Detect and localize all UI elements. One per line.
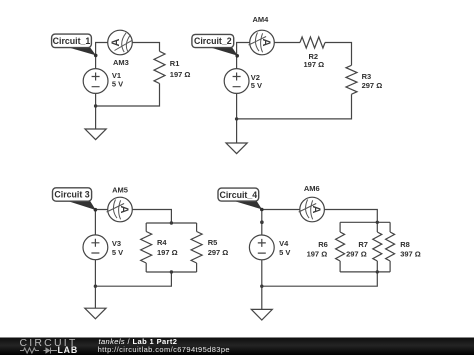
ammeter AM6 xyxy=(300,197,325,222)
node N4a junction top tap xyxy=(376,221,379,224)
svg-text:5 V: 5 V xyxy=(251,81,262,90)
resistor R2 xyxy=(300,37,325,48)
svg-text:5 V: 5 V xyxy=(279,248,290,257)
svg-text:Circuit_4: Circuit_4 xyxy=(219,190,257,200)
svg-text:197 Ω: 197 Ω xyxy=(157,248,178,257)
svg-text:A: A xyxy=(110,38,122,46)
svg-text:V3: V3 xyxy=(112,239,121,248)
ammeter AM3 xyxy=(108,30,133,55)
wire R4 bottom lead xyxy=(145,263,147,272)
wire R6 top lead xyxy=(339,222,341,232)
callout label Circuit_4 xyxy=(218,188,264,211)
node N2 junction xyxy=(235,117,238,120)
resistor R5 xyxy=(191,232,202,264)
wire V1 bottom to ground xyxy=(95,93,97,129)
node N4c junction at V4 bottom xyxy=(260,285,263,288)
wire R1 bottom to bottom rail xyxy=(96,84,160,107)
svg-text:R8: R8 xyxy=(400,240,410,249)
wire V4 bottom to ground xyxy=(261,260,263,310)
svg-text:297 Ω: 297 Ω xyxy=(208,248,229,257)
node N4d junction on V4 top lead xyxy=(260,220,264,224)
wire R2 right to R3 top lead xyxy=(325,43,352,66)
voltage source V2 xyxy=(224,69,249,94)
ground xyxy=(226,143,247,154)
node N3c junction at V3 bottom xyxy=(94,285,97,288)
svg-text:Circuit_2: Circuit_2 xyxy=(194,36,232,46)
voltage source V3 xyxy=(83,235,108,260)
svg-text:http://circuitlab.com/c6794t95: http://circuitlab.com/c6794t95d83pe xyxy=(98,345,230,354)
svg-text:R4: R4 xyxy=(157,238,167,247)
wire AM6 right to parallel top tap xyxy=(324,210,377,223)
resistor R1 xyxy=(154,51,165,83)
svg-text:AM3: AM3 xyxy=(113,58,129,67)
wire bottom tap to rail to V3 xyxy=(95,272,171,286)
node N3b junction bottom tap xyxy=(170,270,173,273)
voltage source V1 xyxy=(83,69,108,94)
voltage source V4 xyxy=(249,235,274,260)
ammeter AM5 xyxy=(108,197,133,222)
wire R8 top lead xyxy=(389,222,391,232)
node N4b junction bottom tap xyxy=(376,270,379,273)
svg-text:197 Ω: 197 Ω xyxy=(304,60,325,69)
svg-text:A: A xyxy=(260,39,272,47)
wire V2 top to corner to ammeter AM4 left xyxy=(237,43,250,69)
wire R4 top lead xyxy=(145,223,147,232)
svg-text:5 V: 5 V xyxy=(112,248,123,257)
wire AM5 right to parallel top tap xyxy=(132,210,171,224)
resistor R8 xyxy=(386,232,395,261)
svg-text:R6: R6 xyxy=(318,240,328,249)
svg-text:5 V: 5 V xyxy=(112,79,123,88)
svg-text:AM6: AM6 xyxy=(304,184,320,193)
ground xyxy=(85,308,106,319)
svg-text:197 Ω: 197 Ω xyxy=(307,250,328,259)
wire R6 bottom lead xyxy=(339,261,341,272)
svg-text:297 Ω: 297 Ω xyxy=(362,81,383,90)
wire top bar R4-R5 xyxy=(146,222,196,224)
svg-text:R5: R5 xyxy=(208,238,218,247)
svg-text:LAB: LAB xyxy=(58,345,78,355)
wire R7 bottom lead xyxy=(376,261,378,272)
node N1 junction xyxy=(94,104,97,107)
svg-text:R3: R3 xyxy=(362,72,372,81)
svg-text:V4: V4 xyxy=(279,239,289,248)
svg-text:297 Ω: 297 Ω xyxy=(346,250,367,259)
node N3a junction top tap xyxy=(170,221,173,224)
wire V3 bottom to ground xyxy=(94,260,96,309)
callout label Circuit_1 xyxy=(52,34,98,57)
wire R7 top lead xyxy=(376,222,378,232)
svg-text:AM5: AM5 xyxy=(112,186,128,195)
resistor R7 xyxy=(373,232,382,261)
svg-text:R7: R7 xyxy=(358,240,368,249)
wire AM3 right to R1 top lead xyxy=(132,43,159,52)
wire bottom bar R4-R5 xyxy=(146,271,196,273)
svg-text:A: A xyxy=(118,206,130,214)
ammeter AM4 xyxy=(250,30,275,55)
svg-text:Circuit_1: Circuit_1 xyxy=(53,36,91,46)
wire R8 bottom lead xyxy=(389,261,391,272)
wire R5 top lead xyxy=(196,223,198,232)
svg-text:A: A xyxy=(310,206,322,214)
svg-text:Circuit 3: Circuit 3 xyxy=(54,190,89,200)
svg-text:397 Ω: 397 Ω xyxy=(400,250,421,259)
wire R5 bottom lead xyxy=(196,263,198,272)
wire V1 top to corner to ammeter AM3 left xyxy=(96,43,108,69)
wire AM4 right to R2 left lead xyxy=(274,42,300,44)
resistor R6 xyxy=(336,232,345,261)
callout label Circuit_2 xyxy=(192,34,239,57)
wire bottom bar R6-R8 xyxy=(340,271,390,273)
svg-text:R1: R1 xyxy=(170,59,180,68)
wire V3 top to corner to ammeter AM5 left xyxy=(95,210,107,235)
wire R3 bottom to bottom rail xyxy=(237,94,352,119)
svg-text:197 Ω: 197 Ω xyxy=(170,70,191,79)
ground xyxy=(251,309,272,320)
resistor R4 xyxy=(141,232,152,264)
callout label Circuit 3 xyxy=(53,188,98,212)
ground xyxy=(85,129,106,140)
resistor R3 xyxy=(346,65,357,94)
footer logo resistor-diode squiggle xyxy=(20,348,57,354)
svg-text:AM4: AM4 xyxy=(253,15,270,24)
wire top bar R6-R8 xyxy=(340,221,390,223)
wire V4 top to corner to ammeter AM6 left xyxy=(262,210,300,236)
wire V2 bottom to ground xyxy=(236,93,238,143)
wire bottom tap to rail to V4 xyxy=(262,272,378,286)
